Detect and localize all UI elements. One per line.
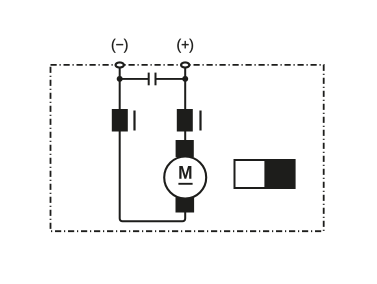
- motor M1 letter M: [179, 166, 191, 179]
- choke L2 body: [177, 109, 193, 132]
- node A junction dot: [117, 76, 123, 82]
- terminal (+) connector: [181, 62, 189, 67]
- motor M1 top brush: [176, 140, 194, 157]
- wire: left return run L1 down, along bottom, up to motor bottom brush: [120, 132, 186, 222]
- wire: stub from minus terminal to node A: [119, 66, 121, 79]
- wire: choke L2 to motor top brush: [184, 132, 186, 143]
- terminal (-) connector: [116, 62, 124, 67]
- choke L1 core line: [133, 111, 135, 131]
- choke L1 body: [112, 109, 128, 132]
- capacitor C1 left plate: [148, 73, 150, 86]
- motor M1 body circle: [164, 157, 206, 199]
- legend box outline (white half): [235, 160, 295, 188]
- node B junction dot: [182, 76, 188, 82]
- wire: node A down to choke L1: [119, 79, 121, 110]
- wire: node A to capacitor left plate: [120, 78, 149, 80]
- choke L2 core line: [199, 111, 201, 131]
- wire: stub from plus terminal to node B: [184, 66, 186, 79]
- enclosure boundary (dash-dot border): [51, 65, 324, 231]
- motor M1 bottom brush: [176, 198, 195, 213]
- legend box black half: [264, 159, 295, 189]
- motor M1 underline: [178, 183, 192, 185]
- label (+) plus terminal: [177, 39, 193, 53]
- label (-) minus terminal: [112, 39, 128, 53]
- wire: capacitor right plate to node B: [156, 78, 186, 80]
- wire: node B down to choke L2: [184, 79, 186, 110]
- capacitor C1 right plate: [155, 73, 157, 86]
